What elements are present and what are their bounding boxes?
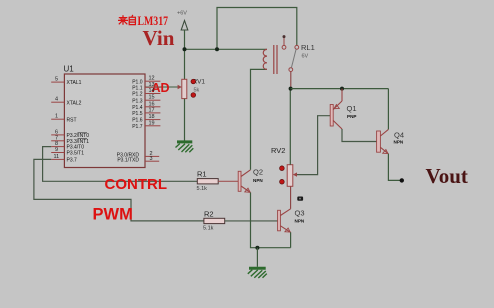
svg-text:17: 17 (149, 107, 155, 113)
wire RV2 wiper to Q1 base (297, 116, 330, 175)
svg-text:RV2: RV2 (271, 146, 285, 155)
pin P3.2/INT0 (51, 129, 89, 139)
wire relay common down (290, 72, 292, 89)
relay RL1 coil (263, 45, 277, 74)
node junction Q1 emitter (340, 87, 344, 91)
svg-text:NPN: NPN (295, 219, 305, 224)
wire R1 to Q2 base (218, 180, 238, 182)
svg-text:Q3: Q3 (295, 209, 305, 218)
svg-text:15: 15 (149, 95, 155, 101)
svg-text:P1.2: P1.2 (132, 92, 143, 98)
value tag blob (297, 197, 303, 201)
svg-text:P1.5: P1.5 (132, 111, 143, 117)
pin P3.1/TXD (117, 156, 159, 164)
svg-text:9: 9 (55, 147, 58, 153)
svg-text:Q4: Q4 (394, 130, 404, 139)
transistor Q1 (330, 101, 356, 129)
wire Vin to coil horizontal (185, 48, 268, 50)
wire R2 to Q3 base (225, 220, 278, 222)
transistor Q2 (238, 168, 263, 193)
potentiometer RV1 (178, 85, 182, 90)
power arrow symbol (181, 21, 188, 31)
node junction relay common (289, 87, 293, 91)
svg-text:P1.1: P1.1 (132, 85, 143, 91)
wire Q2 emitter down (251, 193, 291, 248)
node junction Vin (183, 47, 187, 51)
svg-text:6V: 6V (302, 54, 309, 60)
svg-text:NPN: NPN (253, 178, 263, 183)
pin XTAL2 (51, 97, 81, 107)
wire RV1 bottom to ground (184, 99, 186, 141)
svg-text:Q1: Q1 (347, 104, 357, 113)
wire Q2 collector to relay coil (251, 69, 268, 169)
svg-text:1: 1 (55, 114, 58, 120)
svg-text:13: 13 (149, 82, 155, 88)
wire Vin vertical (184, 30, 186, 79)
pin XTAL1 (51, 77, 81, 87)
svg-text:PWM: PWM (93, 205, 133, 223)
node Vout terminal (400, 178, 404, 182)
svg-text:P1.4: P1.4 (132, 105, 143, 111)
svg-text:RST: RST (67, 117, 77, 123)
wire PWM net (34, 159, 204, 221)
svg-text:12: 12 (149, 76, 155, 82)
svg-text:R1: R1 (197, 170, 207, 179)
node junction rail (215, 47, 219, 51)
pin P3.5/T1 (51, 147, 84, 157)
svg-text:4: 4 (55, 97, 58, 103)
svg-text:3: 3 (150, 156, 153, 162)
svg-text:P1.0: P1.0 (132, 79, 143, 85)
wire RV2 top (289, 89, 291, 165)
pins P1.0-P1.7 (145, 81, 160, 126)
svg-text:11: 11 (54, 154, 60, 160)
svg-text:Vout: Vout (426, 164, 468, 188)
svg-text:XTAL1: XTAL1 (67, 80, 82, 86)
svg-text:Q2: Q2 (253, 168, 263, 177)
wire Q4 collector up (387, 89, 389, 130)
svg-text:NPN: NPN (394, 139, 404, 144)
svg-text:19: 19 (149, 120, 155, 126)
svg-text:P3.5/T1: P3.5/T1 (67, 151, 85, 157)
wire Q1 collector to Q4 base (342, 129, 377, 142)
ground under Q2 Q3 (248, 268, 267, 278)
svg-text:U1: U1 (64, 65, 75, 74)
svg-text:XTAL2: XTAL2 (67, 100, 82, 106)
pin indicator dots RV2 (280, 166, 285, 171)
svg-text:P1.6: P1.6 (132, 118, 143, 124)
svg-text:CONTRL: CONTRL (105, 176, 168, 193)
svg-text:Vin: Vin (143, 26, 175, 50)
relay RL1 contacts (282, 35, 299, 71)
wire CONTRL net (43, 147, 198, 182)
svg-text:14: 14 (149, 88, 155, 94)
svg-text:PNP: PNP (347, 114, 356, 119)
svg-text:P3.7: P3.7 (67, 158, 78, 164)
svg-text:RL1: RL1 (301, 43, 315, 52)
pin P3.4/T0 (51, 141, 84, 151)
wire Q1 emitter up (341, 89, 343, 101)
svg-text:P1.3: P1.3 (132, 98, 143, 104)
pin indicator dots RV1 (191, 79, 196, 84)
pin P3.3/INT1 (51, 135, 89, 145)
wire AD from P1.1 to RV1 (145, 86, 179, 88)
svg-text:5: 5 (55, 77, 58, 83)
svg-text:P1.7: P1.7 (132, 124, 143, 130)
wire Q3 collector to RV2 (290, 186, 292, 209)
pin P3.7 (51, 154, 77, 164)
node junction emitter ground (255, 246, 259, 250)
svg-text:5.1k: 5.1k (203, 226, 214, 232)
ground under RV1 (176, 142, 194, 152)
svg-text:16: 16 (149, 101, 155, 107)
svg-text:5.1k: 5.1k (197, 186, 208, 192)
pin P3.0/RXD (117, 151, 159, 159)
wire top rail riser (217, 8, 297, 50)
wire Q3 emitter down (290, 232, 292, 247)
wire to ground (256, 248, 258, 267)
transistor Q4 (377, 129, 404, 153)
transistor Q3 (278, 209, 305, 233)
svg-text:R2: R2 (204, 210, 214, 219)
svg-text:P3.1/TXD: P3.1/TXD (117, 158, 139, 164)
label 来自 (CJK strokes) (118, 15, 135, 25)
svg-text:+6V: +6V (177, 11, 187, 17)
wire bus to Q1 Q4 (291, 88, 389, 90)
wire Q4 emitter to Vout (388, 154, 400, 181)
pin RST (51, 114, 76, 124)
svg-text:18: 18 (149, 114, 155, 120)
